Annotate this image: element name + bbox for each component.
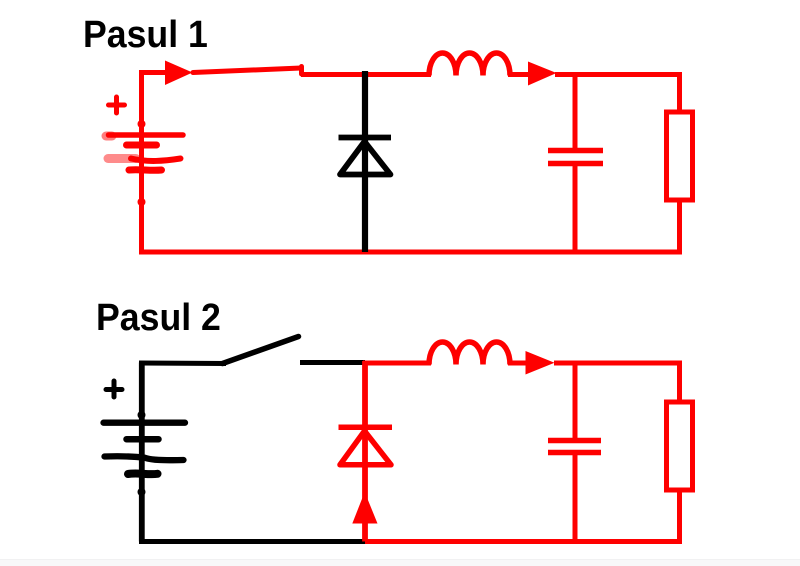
diode D1 cathode bar bbox=[339, 135, 392, 141]
wire: resistor bottom lead and bottom wire (red part) bbox=[363, 492, 680, 542]
inductor L1 bbox=[429, 53, 510, 76]
wire: inductor to arrow bbox=[508, 72, 532, 77]
battery V1 cells bbox=[106, 120, 183, 206]
capacitor C1 plates bbox=[548, 151, 603, 164]
diode D2 current arrow (up) bbox=[352, 492, 377, 524]
capacitor C2 bottom lead bbox=[573, 455, 578, 542]
wire: switch stub (black) bbox=[300, 360, 365, 365]
capacitor C1 top lead bbox=[573, 74, 578, 148]
current arrow A1 bbox=[165, 61, 193, 86]
battery V2 cells bbox=[104, 411, 186, 496]
current arrow A3 bbox=[526, 351, 555, 375]
inductor L2 bbox=[429, 342, 510, 364]
capacitor C2 plates bbox=[548, 441, 601, 453]
diode D2 cathode bar bbox=[339, 425, 393, 431]
resistor R1 bbox=[667, 112, 693, 200]
wire: top-left segment (black) bbox=[139, 361, 226, 367]
wire: resistor bottom lead and bottom wire bbox=[139, 202, 680, 252]
capacitor C2 top lead bbox=[573, 363, 578, 439]
footer strip bbox=[0, 560, 800, 566]
wire: V2 left branch vertical (black) bbox=[139, 363, 145, 542]
title: Pasul 1 bbox=[83, 16, 208, 54]
diode D1 (black) cathode lead bbox=[362, 71, 368, 252]
resistor R2 bbox=[667, 402, 693, 490]
wire: inductor to arrow bbox=[508, 361, 532, 366]
diode D2 (red) cathode lead bbox=[362, 361, 368, 542]
wire: top right segment and right branch to resistor bbox=[554, 363, 680, 402]
footer separator line bbox=[0, 559, 800, 560]
battery V2 plus sign bbox=[106, 381, 122, 397]
wire: top-left segment to arrow bbox=[139, 70, 180, 75]
wire: top middle segment to inductor (red) bbox=[363, 361, 431, 366]
current arrow A2 bbox=[528, 62, 557, 86]
wire: V1 left branch vertical bbox=[139, 73, 144, 253]
switch S1 (closed) lever bbox=[193, 67, 302, 75]
title: Pasul 2 bbox=[96, 299, 221, 337]
switch S2 (open) lever bbox=[223, 337, 299, 364]
battery V1 plus sign bbox=[109, 97, 125, 113]
wire: top middle segment to inductor bbox=[301, 72, 431, 77]
capacitor C1 bottom lead bbox=[573, 166, 578, 252]
wire: top right segment and right branch to resistor bbox=[555, 75, 680, 113]
wire: bottom wire (black part) bbox=[139, 539, 365, 544]
diode D2 triangle bbox=[340, 431, 391, 465]
diode D1 triangle bbox=[340, 142, 391, 175]
